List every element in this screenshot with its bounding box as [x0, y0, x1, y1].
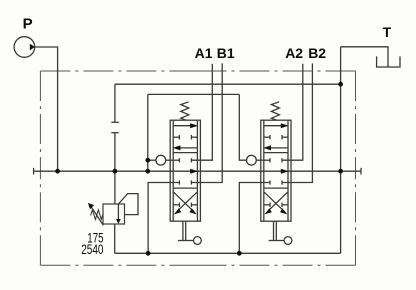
V1 lever stem	[182, 221, 184, 240]
wire P gallery	[34, 170, 361, 172]
wire B1 riser	[191, 63, 222, 182]
V1 box3 cross arrow a	[174, 192, 193, 211]
enclosure dash-dot border	[40, 71, 355, 265]
V2 box3 cross arrow a	[264, 192, 283, 211]
V1 box2 bypass arrowhead	[190, 169, 198, 174]
svg-text:P: P	[23, 16, 33, 33]
junction dot relief riser-gallery	[113, 169, 118, 174]
gallery left end cap	[33, 168, 35, 175]
wire riser to CV2	[239, 94, 246, 160]
V1 box2 blocked ports bottom	[178, 180, 180, 184]
svg-text:A1: A1	[195, 45, 213, 61]
V2 divider 1	[264, 152, 288, 154]
gallery right end cap	[360, 168, 362, 175]
svg-text:B2: B2	[308, 45, 326, 61]
wire A1 riser	[191, 64, 212, 161]
wire T riser	[340, 47, 342, 254]
V2 inner rail right	[287, 120, 289, 221]
junction dot check riser-gallery	[145, 169, 150, 174]
relief valve RV1 internal flow line	[117, 204, 119, 220]
wire tank drop 1	[148, 183, 179, 254]
tank symbol	[377, 56, 400, 67]
V2 return spring	[271, 102, 279, 120]
V1 box3 blocked ports	[173, 204, 179, 206]
wire bottom rail	[115, 252, 341, 254]
V2 envelope outer	[261, 120, 291, 221]
V1 divider 2	[173, 187, 197, 189]
wire A2 riser	[282, 64, 303, 161]
relief valve RV1 adjustment arrow	[91, 207, 103, 226]
svg-text:2540: 2540	[81, 242, 104, 257]
V1 box1 arrow right	[173, 125, 190, 127]
wire CV2 to valve V2	[256, 159, 270, 161]
junction dot T-return gallery	[338, 82, 343, 87]
V2 box1 arrow right	[264, 125, 281, 127]
relief valve RV1 body	[103, 204, 125, 224]
V2 box3 cross arrow b	[268, 192, 287, 211]
V2 box3 blocked ports	[264, 204, 270, 206]
relief valve RV1 pilot line	[118, 194, 138, 215]
svg-text:T: T	[383, 24, 392, 40]
V2 box1 blocked ports	[264, 136, 270, 138]
V2 lever stem	[273, 221, 275, 240]
V2 box2 blocked ports top	[269, 158, 271, 162]
pump P1 output arrow	[30, 44, 35, 51]
V1 box2 blocked ports top	[178, 158, 180, 162]
wire bypass-over run	[148, 93, 240, 95]
V1 inner rail right	[196, 120, 198, 221]
V1 lever knob	[194, 237, 202, 245]
wire tank drop 2	[239, 183, 270, 254]
junction dot P-gallery	[55, 169, 60, 174]
svg-text:A2: A2	[285, 45, 303, 61]
V2 divider 2	[264, 187, 288, 189]
wire check riser 1	[147, 94, 149, 171]
relief valve RV1 spring	[91, 210, 104, 220]
V1 box3 cross arrow b	[178, 192, 197, 211]
plug tick lower	[111, 132, 118, 134]
V1 box1 arrow left	[180, 147, 197, 149]
valve V1	[170, 102, 201, 245]
svg-text:B1: B1	[217, 45, 235, 61]
V1 box1 blocked ports	[173, 136, 179, 138]
relief valve RV1 internal arrowhead	[116, 219, 121, 224]
valve V2	[261, 102, 292, 245]
V1 inner rail left	[172, 120, 174, 221]
check valve CV1	[156, 155, 166, 165]
wire T top run	[341, 47, 388, 67]
check valve CV2	[247, 155, 257, 165]
wire RV1 outlet	[114, 224, 116, 253]
V2 lever knob	[284, 237, 292, 245]
pump P1 circle	[14, 37, 35, 58]
wire check branch 1	[148, 159, 156, 161]
V1 divider 1	[173, 152, 197, 154]
wire tank return gallery	[115, 83, 341, 85]
junction dot check branch 1	[145, 158, 150, 163]
wire plug riser lower to relief valve	[114, 133, 116, 204]
junction dot rail drop 1	[146, 251, 151, 256]
V2 box2 bypass arrowhead	[281, 169, 289, 174]
V1 return spring	[181, 102, 189, 120]
V2 inner rail left	[263, 120, 265, 221]
junction dot T-gallery	[338, 169, 343, 174]
V1 envelope outer	[170, 120, 200, 221]
wire P to gallery	[35, 47, 58, 171]
wire CV1 to valve V1	[166, 159, 180, 161]
wire B2 riser	[282, 63, 312, 182]
junction dot rail drop 2	[237, 251, 242, 256]
V2 box1 arrow left	[271, 147, 288, 149]
plug tick upper	[111, 121, 118, 123]
V1 lever bar	[178, 240, 194, 242]
wire plug riser upper	[114, 84, 116, 122]
V2 lever bar	[269, 240, 285, 242]
V2 box2 blocked ports bottom	[269, 180, 271, 184]
